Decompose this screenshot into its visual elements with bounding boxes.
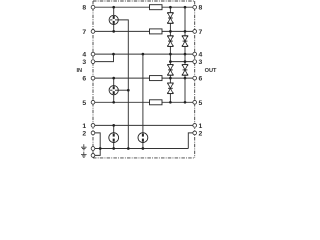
svg-text:4: 4 <box>82 52 86 59</box>
node GDT4-rail <box>142 147 145 150</box>
wire from left terminal 2 down to earth rail <box>93 133 100 149</box>
node colB-line8 <box>184 6 187 9</box>
node colA-line4 <box>169 53 172 56</box>
node colB-line6 <box>184 77 187 80</box>
PE bus from GDT1 centre electrode down to earth rail <box>118 20 128 149</box>
wire line 7 right of resistor <box>162 30 195 32</box>
node stub2-rail <box>99 147 102 150</box>
svg-text:3: 3 <box>82 59 86 66</box>
node bus2-line4 <box>142 53 145 56</box>
terminal 2 left <box>91 131 95 135</box>
terminal labels left <box>82 5 86 138</box>
terminal 7 right <box>193 30 197 34</box>
terminal 6 left <box>91 76 95 80</box>
svg-text:8: 8 <box>199 5 203 12</box>
suppressor diode TVS2 (line 7 to common) <box>168 36 174 47</box>
wire line 1 <box>93 124 195 126</box>
node colA-line7 <box>169 30 172 33</box>
suppressor diode TVS5 (common to line 5) <box>182 65 188 76</box>
suppressor diode TVS1 (lines 8-7) <box>168 13 174 24</box>
enclosure boundary (dash-dot) top <box>93 0 195 2</box>
GDT2 centre electrode wire to PE bus <box>118 89 128 91</box>
node GDT2centre-PEbus <box>127 89 130 92</box>
terminal 8 left <box>91 5 95 9</box>
TVS column A leads <box>169 7 171 102</box>
resistor R4 (line 5) <box>150 100 163 105</box>
node GDT3-line1 <box>112 124 115 127</box>
terminal 6 right <box>193 76 197 80</box>
node GDT2-line5 <box>112 101 115 104</box>
terminal 1 left <box>91 124 95 128</box>
wire line 8 right of resistor <box>162 6 195 8</box>
terminal circles <box>91 5 196 157</box>
node colB-line3 <box>184 60 187 63</box>
suppressor diode TVS4 (common to line 6) <box>168 65 174 76</box>
terminal 8 right <box>193 5 197 9</box>
resistor R2 (line 7) <box>150 29 163 34</box>
wire line 5 right of resistor <box>162 101 195 103</box>
enclosure boundary (dash-dot) right <box>194 1 196 158</box>
svg-text:2: 2 <box>199 130 203 137</box>
junction dots <box>99 6 186 150</box>
node GDT2-line6 <box>112 77 115 80</box>
wire line 6 right of resistor <box>162 77 195 79</box>
terminal 4 right <box>193 52 197 56</box>
svg-text:4: 4 <box>199 52 203 59</box>
resistor R1 (line 8) <box>150 5 163 10</box>
node jumper-line4 <box>112 53 115 56</box>
wire line 3 right segment <box>170 61 194 63</box>
terminal 1 right <box>193 124 197 128</box>
node colB-line4 <box>184 53 187 56</box>
svg-text:2: 2 <box>82 130 86 137</box>
wire from earth terminal B up to earth rail <box>93 149 100 156</box>
svg-text:6: 6 <box>199 76 203 83</box>
terminal 2 right <box>193 131 197 135</box>
earth terminal B <box>91 154 95 158</box>
wire line 4 <box>93 53 195 55</box>
terminal 3 left <box>91 60 95 64</box>
gas discharge tube GDT3 (line 1 to earth rail) <box>109 125 119 148</box>
svg-text:6: 6 <box>82 76 86 83</box>
node colA-line5 <box>169 101 172 104</box>
wire from right terminal 2 down to earth rail <box>188 133 194 149</box>
earth rail <box>93 148 188 150</box>
enclosure boundary (dash-dot) bottom <box>93 157 195 159</box>
wire line 6 left of resistor <box>93 77 150 79</box>
svg-text:OUT: OUT <box>205 68 217 74</box>
node colB-line5 <box>184 101 187 104</box>
bus from line 4 down to GDT4 <box>142 54 144 133</box>
node colA-line8 <box>169 6 172 9</box>
svg-text:1: 1 <box>199 123 203 130</box>
node GDT1-line8 <box>112 6 115 9</box>
node PEbus-rail <box>127 147 130 150</box>
terminal labels right <box>199 5 203 138</box>
svg-text:1: 1 <box>82 123 86 130</box>
TVS column B leads <box>184 7 186 102</box>
svg-text:7: 7 <box>82 29 86 36</box>
terminal 7 left <box>91 30 95 34</box>
wire line 8 left of resistor <box>93 6 150 8</box>
resistor R3 (line 6) <box>150 76 163 81</box>
wire line 7 left of resistor <box>93 30 150 32</box>
svg-text:7: 7 <box>199 29 203 36</box>
suppressor diode TVS6 (lines 6-5) <box>168 83 174 94</box>
wire line 3 left stub with jumper up to line 4 <box>93 54 114 62</box>
node GDT3-rail <box>112 147 115 150</box>
gas discharge tube GDT2 (3-electrode, lines 6-5) <box>109 78 118 102</box>
svg-text:5: 5 <box>199 100 203 107</box>
node colA-line6 <box>169 77 172 80</box>
earth terminal A <box>91 147 95 151</box>
svg-text:5: 5 <box>82 100 86 107</box>
node GDT1-line7 <box>112 30 115 33</box>
terminal 5 right <box>193 100 197 104</box>
earth symbol A <box>81 144 87 150</box>
svg-text:3: 3 <box>199 59 203 66</box>
wire line 5 left of resistor <box>93 101 150 103</box>
suppressor diode TVS3 (line 8 to common) <box>182 36 188 47</box>
svg-text:IN: IN <box>77 68 83 74</box>
gas discharge tube GDT4 (common bus to earth rail) <box>138 133 148 149</box>
node colB-line7 <box>184 30 187 33</box>
earth symbol B <box>81 152 87 158</box>
svg-text:8: 8 <box>82 5 86 12</box>
gas discharge tube GDT1 (3-electrode, lines 8-7) <box>109 7 118 31</box>
terminal 5 left <box>91 100 95 104</box>
node colA-line3 <box>169 60 172 63</box>
enclosure boundary (dash-dot) left <box>92 1 94 158</box>
terminal 3 right <box>193 60 197 64</box>
terminal 4 left <box>91 52 95 56</box>
